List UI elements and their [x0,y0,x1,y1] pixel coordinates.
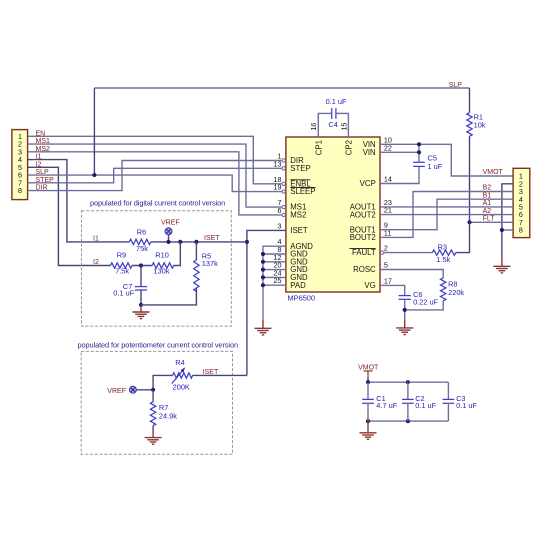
wire cap bank bottom bus [368,420,448,422]
wire FLT [470,221,514,223]
svg-text:SLEEP: SLEEP [290,187,315,196]
junction VIN/C5 b [417,150,421,154]
capacitor C1 [362,382,398,421]
svg-text:populated for potentiometer cu: populated for potentiometer current cont… [78,341,238,350]
wire VMOT stub [367,378,369,383]
svg-text:B1: B1 [483,192,492,199]
svg-text:7.5k: 7.5k [115,267,129,276]
dashed box potentiometer section [81,351,232,454]
capacitor C3 [443,382,478,421]
svg-text:I1: I1 [93,235,99,242]
capacitor C7 [113,266,147,305]
svg-text:A1: A1 [483,200,492,207]
svg-text:R10: R10 [155,251,169,260]
svg-text:0.1 uF: 0.1 uF [326,97,347,106]
svg-text:VG: VG [364,281,375,290]
svg-text:I2: I2 [93,259,99,266]
junction R10 top [178,240,182,244]
connector JP2 (right header) [513,168,530,237]
junction VREF1 [166,240,170,244]
junction C7 bottom [139,303,143,307]
wire B2 (BOUT2) [380,192,513,238]
ground (right connector) [493,256,510,273]
svg-text:VIN: VIN [363,148,376,157]
svg-text:24.9k: 24.9k [159,412,177,421]
potentiometer R4 [153,358,247,392]
svg-text:15: 15 [339,123,348,131]
capacitor C5 [380,144,443,183]
svg-text:19: 19 [274,183,282,192]
svg-text:13: 13 [274,159,282,168]
wire GND bus [263,246,286,320]
svg-text:1 uF: 1 uF [428,162,443,171]
junction pin8 gnd [500,228,504,232]
IC CP pin names (rotated) [314,140,353,155]
VREF supply symbol 1 [161,220,180,242]
svg-text:5: 5 [384,261,388,270]
junction top bus C1 [366,380,370,384]
junction FLT/R1/R3 [467,220,471,224]
resistor R9 [111,251,153,276]
dashed box digital section [82,211,232,326]
svg-text:R8: R8 [448,280,457,289]
svg-text:R7: R7 [159,403,168,412]
svg-text:ISET: ISET [204,235,220,242]
svg-text:2: 2 [384,244,388,253]
svg-text:MS2: MS2 [290,211,306,220]
capacitor C2 [402,382,437,421]
ground (C7) [133,305,150,319]
IC left pin numbers [274,152,282,286]
resistor R3 [384,222,470,264]
junction top bus C2 [406,380,410,384]
wire A1 (AOUT1) [380,206,513,208]
svg-text:FAULT: FAULT [352,248,376,257]
wire DIR [28,161,282,191]
svg-text:R9: R9 [117,251,126,260]
wire VIN pin22 [380,151,419,153]
resistor R1 [467,88,486,222]
junction bottom bus C2 [406,419,410,423]
svg-text:STEP: STEP [290,164,310,173]
svg-text:200K: 200K [173,382,190,391]
svg-text:4.7 uF: 4.7 uF [376,401,397,410]
svg-text:BOUT2: BOUT2 [350,233,376,242]
resistor R10 [152,242,180,276]
VREF supply symbol 2 [107,386,153,394]
junction GND bus dots [261,252,265,287]
wire I2 [28,167,111,265]
svg-text:130k: 130k [154,267,170,276]
svg-text:C4: C4 [328,120,337,129]
wire ISET riser [247,230,286,375]
svg-text:ISET: ISET [203,369,219,376]
svg-text:AOUT2: AOUT2 [350,210,376,219]
svg-text:137k: 137k [202,259,218,268]
junction bottom bus C1 [366,419,370,423]
junction VIN/C5 a [417,142,421,146]
wire I1 [28,160,130,242]
capacitor C6 [380,285,439,319]
svg-text:VREF: VREF [161,220,180,227]
junction SLP [92,173,96,177]
svg-text:220k: 220k [448,288,464,297]
svg-text:1.5k: 1.5k [436,255,450,264]
wire cap bank top bus [368,381,448,383]
svg-text:17: 17 [384,276,392,285]
wire STEP [28,168,282,183]
wire A2 (AOUT2) [380,214,513,216]
svg-text:VMOT: VMOT [483,169,504,176]
wire MS2 [28,152,282,215]
svg-text:16: 16 [309,123,318,131]
wire JP2 pin2 gnd [502,184,513,256]
junction R9/R10/C7 [139,263,143,267]
svg-text:VCP: VCP [360,179,376,188]
junction R5 top [194,240,198,244]
wire EN to ENBL [28,136,282,184]
junction VREF2/R4/R7 [151,388,155,392]
junction ISET [245,240,249,244]
ground (R7) [145,430,162,445]
resistor R6 [129,228,247,253]
svg-text:CP2: CP2 [345,140,354,155]
svg-text:PAD: PAD [290,281,306,290]
wire SLP row [28,175,282,192]
svg-text:C5: C5 [428,154,437,163]
svg-text:MP6500: MP6500 [288,293,316,302]
svg-text:B2: B2 [483,185,492,192]
svg-text:0.1 uF: 0.1 uF [113,288,134,297]
svg-text:6: 6 [278,206,282,215]
IC left pin names [290,156,315,290]
svg-text:ISET: ISET [290,226,308,235]
svg-text:R4: R4 [175,358,184,367]
svg-text:10k: 10k [474,120,486,129]
connector JP1 (left header) [12,130,28,200]
net label VMOT (cap bank) [358,365,379,378]
ground (cap bank) [360,421,377,439]
wire VIN pin10 to VMOT [380,144,513,176]
resistor R7 [150,390,177,430]
wire JP2 pin8 gnd [502,229,513,231]
wire C7 to R5 bottom [141,288,196,305]
svg-text:CP1: CP1 [314,140,323,155]
svg-text:SLP: SLP [449,82,463,89]
IC CP pin numbers 16 / 15 (rotated) [309,123,348,131]
svg-text:75k: 75k [136,244,148,253]
resistor R8 [380,270,464,310]
svg-text:0.22 uF: 0.22 uF [413,297,439,306]
svg-text:R6: R6 [137,228,146,237]
svg-text:A2: A2 [483,208,492,215]
ground (IC GND bus) [255,320,272,335]
svg-text:FLT: FLT [483,216,496,223]
svg-text:0.1 uF: 0.1 uF [456,401,477,410]
svg-text:ROSC: ROSC [353,265,376,274]
capacitor C4 [318,97,348,137]
junction C6/R8 [403,308,407,312]
ground (C6) [396,320,413,335]
wire MS1 [28,144,282,207]
svg-text:R3: R3 [438,242,447,251]
svg-text:14: 14 [384,175,392,184]
IC right pin numbers [384,135,392,285]
svg-text:0.1 uF: 0.1 uF [415,401,436,410]
svg-text:VREF: VREF [107,388,126,395]
wire SLP riser [93,88,95,175]
svg-text:8: 8 [519,226,523,235]
IC pin inversion circles [282,159,384,255]
resistor R5 [194,242,218,292]
svg-text:3: 3 [278,221,282,230]
op-amp: IC U1 MP6500 body [286,137,380,302]
IC right pin names [350,140,377,290]
svg-text:populated for digital current: populated for digital current control ve… [90,199,225,208]
svg-text:8: 8 [18,186,22,195]
wire B1 (BOUT1) [380,199,513,230]
